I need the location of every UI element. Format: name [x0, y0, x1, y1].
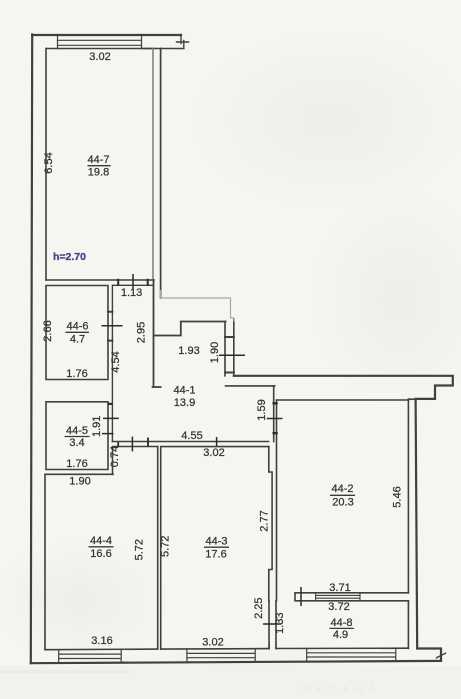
ticks on corridor bottom wall: [132, 437, 216, 452]
gray shaft contour: [161, 290, 235, 322]
room 44-7 left interior wall: [45, 49, 47, 281]
room 44-5 box: [46, 402, 108, 470]
svg-text:4.55: 4.55: [181, 430, 202, 442]
svg-text:3.02: 3.02: [202, 637, 223, 649]
door rungs on nook wall: [225, 337, 234, 373]
room 44-7 bottom wall: [46, 279, 154, 281]
svg-text:19.8: 19.8: [88, 167, 109, 179]
svg-text:17.6: 17.6: [205, 549, 226, 561]
svg-text:44-4: 44-4: [90, 535, 112, 547]
svg-text:5.72: 5.72: [160, 536, 172, 557]
window top: pane lines: [58, 40, 142, 45]
wall: left outer: [31, 35, 32, 664]
svg-text:4.7: 4.7: [70, 334, 85, 346]
wall: bottom outer: [31, 661, 441, 663]
underline 44-3: [204, 546, 229, 548]
room 44-4 top wall: [113, 447, 158, 475]
underline 44-4: [89, 546, 114, 548]
svg-text:44-6: 44-6: [66, 321, 88, 333]
bottom interior lines: [45, 648, 408, 650]
svg-text:44-3: 44-3: [205, 536, 227, 548]
svg-text:1.13: 1.13: [121, 287, 142, 299]
svg-text:1.90: 1.90: [69, 476, 90, 488]
bottom right break symbol: [437, 653, 446, 658]
svg-text:16.6: 16.6: [90, 548, 111, 560]
wall band bottom line to break: [142, 48, 184, 50]
svg-text:3.16: 3.16: [91, 635, 112, 647]
svg-text:1.76: 1.76: [66, 368, 87, 380]
room 44-2 interior top: [277, 399, 409, 401]
svg-text:4.9: 4.9: [333, 629, 348, 641]
door stub 44-1/44-2: [273, 386, 275, 442]
tick door 44-2/44-8: [300, 587, 302, 606]
svg-text:44-7: 44-7: [87, 154, 109, 166]
dimension/door ticks: [102, 274, 302, 624]
svg-text:6.54: 6.54: [43, 152, 55, 173]
svg-text:3.72: 3.72: [328, 601, 349, 613]
wall 44-4/44-3 double: [157, 447, 159, 649]
svg-text:20.3: 20.3: [332, 497, 353, 509]
bottom window room 44-8: [307, 648, 396, 661]
wall right of 44-7: left line lower part: [153, 280, 155, 387]
tick nook wall 1.90: [219, 354, 245, 356]
svg-text:44-1: 44-1: [173, 385, 195, 397]
svg-text:2.66: 2.66: [42, 320, 54, 341]
underline 44-2: [330, 494, 355, 496]
svg-text:1.33: 1.33: [274, 612, 286, 633]
svg-text:5.46: 5.46: [392, 486, 404, 507]
tick 1.33: [263, 623, 281, 625]
svg-text:4.54: 4.54: [110, 351, 122, 372]
room 44-3 interior box: [161, 447, 269, 649]
svg-text:2.25: 2.25: [253, 597, 265, 618]
svg-text:13.9: 13.9: [174, 397, 195, 409]
wall end cap: [153, 386, 161, 388]
room 44-4 left interior wall: [44, 474, 46, 648]
interior step line right: [408, 398, 435, 400]
svg-text:44-2: 44-2: [331, 483, 353, 495]
svg-text:2.95: 2.95: [136, 322, 148, 343]
corridor strip top line: [113, 284, 153, 286]
door tick room 44-6: [102, 325, 123, 327]
nook wall (1.90): double vertical: [224, 322, 226, 376]
underline 44-6: [66, 331, 90, 333]
nook wall right line: [233, 319, 235, 376]
niche dark outline: [154, 322, 226, 336]
room 44-2 interior right wall: [407, 399, 409, 648]
svg-text:44-8: 44-8: [330, 617, 352, 629]
dim tick 1.59: [267, 418, 283, 420]
wall 44-3/44-8: [269, 601, 276, 649]
bottom window room 44-3: [187, 649, 255, 663]
wall band 44-2/44-8: [295, 593, 408, 601]
underline 44-7: [88, 165, 111, 167]
wall: top outer: [32, 34, 181, 36]
svg-text:44-5: 44-5: [66, 425, 88, 437]
wall right of 44-7: double line: [152, 49, 154, 281]
svg-text:1.93: 1.93: [178, 345, 199, 357]
svg-text:3.02: 3.02: [203, 447, 224, 459]
wall break symbol top right: [177, 35, 189, 49]
svg-text:1.91: 1.91: [91, 416, 103, 437]
svg-text:3.02: 3.02: [89, 51, 110, 63]
wall: top interior (room 44-7): [46, 48, 154, 50]
connector rung 44-5 top corner: [108, 403, 113, 405]
corridor wall left of 44-1: [111, 285, 113, 441]
svg-text:h=2.70: h=2.70: [53, 251, 86, 263]
svg-text:3.71: 3.71: [329, 582, 350, 594]
svg-text:1.76: 1.76: [66, 458, 87, 470]
svg-text:5.72: 5.72: [134, 539, 146, 560]
svg-text:3.4: 3.4: [69, 437, 84, 449]
svg-text:ОКСАНА: ОКСАНА: [303, 684, 382, 694]
underline 44-5: [65, 436, 90, 438]
door rungs 0.74 opening: [118, 438, 148, 448]
small end hooks on interior bottom lines: [45, 643, 408, 650]
svg-text:1.90: 1.90: [209, 342, 221, 363]
room 44-2 left wall (lower part): [276, 400, 278, 601]
svg-text:1.59: 1.59: [256, 399, 268, 420]
svg-text:0.74: 0.74: [109, 446, 121, 467]
bottom window room 44-4: [59, 649, 121, 663]
room 44-6 box: [46, 286, 108, 380]
window top: jambs and panes: [58, 35, 142, 49]
door ticks room 44-5: [102, 418, 119, 433]
band between 44-1 and 44-2 passage: [226, 385, 275, 387]
ticks 1.13 opening: [118, 279, 148, 286]
wall 44-3/44-2 left line with jogs: [269, 447, 272, 601]
transom window 44-2/44-8: [316, 593, 360, 601]
room 44-1 bottom wall: [113, 441, 269, 443]
underline 44-8: [330, 627, 355, 629]
door rungs room 44-6: [108, 312, 112, 341]
center tick 1.13 opening: [132, 274, 134, 289]
wall right of 44-7: right line: [160, 49, 162, 299]
svg-text:2.77: 2.77: [259, 510, 271, 531]
door rungs 44-1/44-2: [273, 403, 278, 433]
wall: top of room 44-2 zone, outer with steps: [234, 376, 453, 661]
band below room 44-5: [46, 473, 113, 475]
